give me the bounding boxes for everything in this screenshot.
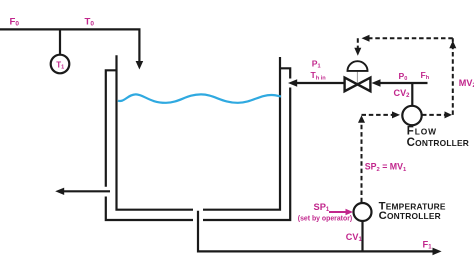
tank outer jacket left [106, 70, 193, 220]
SP1 setpoint arrow [329, 211, 346, 213]
arrow F1 outflow [433, 248, 442, 256]
wire FC tap from pipe [411, 83, 413, 106]
wire pipe from supply to valve [380, 82, 428, 84]
flow controller circle [402, 106, 421, 125]
arrow left at top corner [362, 35, 370, 42]
arrow down into dome [354, 48, 361, 56]
wire TC to product pipe [361, 221, 363, 251]
arrow up on riser [449, 41, 456, 49]
dashed signal TC to FC horizontal [362, 114, 393, 116]
arrow into valve [372, 79, 381, 86]
arrow feed into tank [136, 61, 144, 70]
dashed signal top horizontal [369, 37, 453, 39]
arrow into jacket [288, 79, 297, 86]
valve actuator dome [348, 61, 368, 71]
wire feed pipe F0/T0 top [0, 29, 139, 62]
dashed signal rising right side [452, 38, 454, 115]
wire drain and bottom product pipe [198, 211, 434, 252]
svg-text:CONTROLLER: CONTROLLER [379, 210, 441, 222]
valve stem [356, 71, 358, 85]
svg-text:MV2: MV2 [459, 78, 474, 89]
arrow outlet left [55, 188, 64, 195]
arrow up below corner [358, 115, 365, 123]
tank outer jacket right [203, 68, 290, 220]
water surface wave [118, 94, 281, 102]
instrument T1 [51, 55, 70, 74]
wire jacket outlet left [63, 190, 110, 192]
arrow into FC circle [392, 111, 400, 118]
wire hot inlet to jacket [296, 82, 344, 84]
svg-text:SP2 = MV1: SP2 = MV1 [365, 162, 407, 173]
dashed signal drop to valve actuator [357, 38, 359, 48]
tank inner vessel [117, 55, 281, 210]
wire tap to T1 [59, 29, 61, 54]
dashed signal FC to valve: right horizontal [422, 114, 445, 116]
svg-text:FLOW: FLOW [407, 125, 437, 137]
svg-text:CONTROLLER: CONTROLLER [407, 137, 469, 149]
svg-text:(set by operator): (set by operator) [298, 216, 352, 223]
arrow right toward corner [445, 111, 453, 118]
temperature controller circle [354, 203, 372, 221]
valve CV2 body [345, 78, 371, 92]
dashed signal TC to FC vertical [361, 116, 363, 202]
